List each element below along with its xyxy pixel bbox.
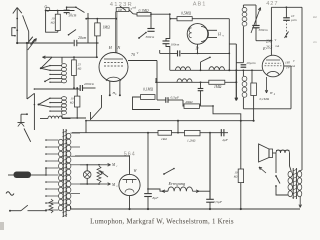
svg-text:40kΩ: 40kΩ	[185, 100, 193, 104]
svg-text:1MΩ: 1MΩ	[214, 85, 222, 89]
svg-text:50cm: 50cm	[69, 14, 77, 18]
svg-text:230: 230	[266, 40, 272, 44]
svg-text:20µcm: 20µcm	[247, 61, 257, 65]
svg-text:E: E	[262, 46, 266, 51]
svg-text:100cm: 100cm	[171, 42, 180, 46]
svg-text:1: 1	[116, 165, 117, 168]
svg-text:Erregung: Erregung	[168, 181, 186, 186]
svg-text:H: H	[269, 91, 273, 95]
svg-text:N: N	[116, 45, 120, 50]
svg-text:4µF: 4µF	[222, 138, 229, 142]
svg-text:300cm: 300cm	[146, 35, 155, 39]
svg-text:V: V	[137, 52, 139, 55]
svg-text:kΩ: kΩ	[51, 21, 55, 25]
svg-text:427: 427	[266, 1, 278, 7]
svg-text:mA: mA	[292, 65, 296, 68]
svg-text:8µF: 8µF	[153, 196, 160, 200]
svg-text:mA: mA	[133, 7, 137, 10]
svg-text:185: 185	[285, 61, 290, 65]
svg-text:G: G	[45, 5, 48, 9]
svg-text:µcm: µcm	[291, 18, 297, 22]
svg-text:mA: mA	[276, 45, 280, 48]
svg-text:100: 100	[118, 9, 123, 12]
svg-text:20cm: 20cm	[78, 36, 86, 40]
svg-text:1kΩ: 1kΩ	[161, 137, 167, 141]
svg-text:Lumophon, Markgraf W, Wechs: Lumophon, Markgraf W, Wechselstrom, 1 Kr…	[90, 219, 234, 226]
svg-text:1MΩ: 1MΩ	[103, 26, 111, 30]
svg-text:300cm: 300cm	[259, 28, 269, 32]
svg-text:70: 70	[131, 52, 135, 57]
svg-text:2000cm: 2000cm	[84, 82, 95, 86]
svg-text:AB1: AB1	[193, 2, 207, 8]
